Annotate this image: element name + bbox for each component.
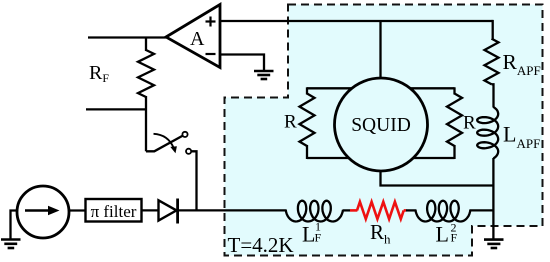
switch blade bbox=[146, 136, 183, 152]
svg-text:T=4.2K: T=4.2K bbox=[228, 233, 294, 257]
wire: L_F2 to right vertical bbox=[470, 209, 494, 211]
wire: SQUID bottom to right vertical bbox=[381, 170, 494, 186]
svg-text:SQUID: SQUID bbox=[351, 115, 411, 136]
pi filter box bbox=[86, 199, 142, 222]
wire: filter to diode bbox=[142, 209, 160, 211]
wire: left R bottom horizontal into SQUID bbox=[307, 157, 352, 159]
stub at R_F bottom bbox=[86, 108, 146, 110]
op-amp U1 bbox=[166, 5, 220, 68]
wire: right R bottom horizontal into SQUID bbox=[410, 157, 455, 159]
svg-text:R: R bbox=[463, 113, 476, 134]
svg-text:F: F bbox=[315, 230, 322, 244]
SQUID body bbox=[335, 78, 428, 171]
wire: switch contact to bottom rail bbox=[191, 151, 196, 210]
ground (current source) bbox=[1, 240, 21, 249]
inductor L_F1 bbox=[286, 201, 343, 222]
inductor L_F2 bbox=[416, 201, 471, 222]
lead left R bbox=[306, 87, 308, 94]
wire: op-amp minus input to ground bbox=[220, 55, 264, 72]
wire: left R top horizontal into SQUID bbox=[307, 87, 355, 89]
resistor R_APF bbox=[485, 39, 499, 85]
svg-text:F: F bbox=[451, 230, 458, 244]
inductor L_APF bbox=[477, 107, 498, 158]
wire: op-amp + input to top rail going right bbox=[220, 20, 493, 22]
leads right R bbox=[453, 87, 455, 94]
current source I bbox=[17, 186, 69, 238]
ground (right, below L_APF) bbox=[484, 240, 504, 248]
switch contact circle (lower) bbox=[186, 149, 191, 154]
wire: current source to ground bbox=[11, 211, 18, 240]
svg-text:A: A bbox=[190, 28, 205, 50]
wire: L_APF down to ground bbox=[492, 158, 494, 240]
ground (op-amp minus) bbox=[254, 71, 274, 79]
switch contact circle (upper) bbox=[182, 132, 187, 137]
leads R_F bbox=[145, 38, 147, 52]
wire: R_APF to L_APF bbox=[492, 84, 494, 107]
wire: source to pi filter bbox=[69, 209, 86, 211]
wire: SQUID top to top rail bbox=[379, 21, 381, 79]
svg-text:L: L bbox=[302, 221, 315, 246]
svg-text:π filter: π filter bbox=[91, 202, 137, 221]
diode D bbox=[159, 200, 177, 220]
resistor R (right shunt) bbox=[447, 94, 462, 147]
cold region T=4.2K (shaded dashed box) bbox=[225, 5, 543, 256]
resistor R_F bbox=[138, 50, 154, 97]
wire: right R top horizontal into SQUID bbox=[407, 87, 455, 89]
switch motion arc with arrowhead bbox=[154, 134, 174, 148]
wire: diode to L_F1 (bottom rail) bbox=[178, 209, 287, 211]
resistor R (left shunt) bbox=[300, 94, 315, 147]
wire: op-amp output to the left bbox=[88, 36, 166, 38]
resistor R_h (red heater) bbox=[350, 209, 357, 212]
wire: top rail down to R_APF (right vertical) bbox=[492, 20, 494, 40]
wire stub L_F1 to R_h bbox=[343, 209, 350, 211]
svg-text:L: L bbox=[436, 221, 449, 246]
svg-text:R: R bbox=[284, 112, 297, 133]
wire stub R_h to L_F2 bbox=[406, 209, 416, 211]
